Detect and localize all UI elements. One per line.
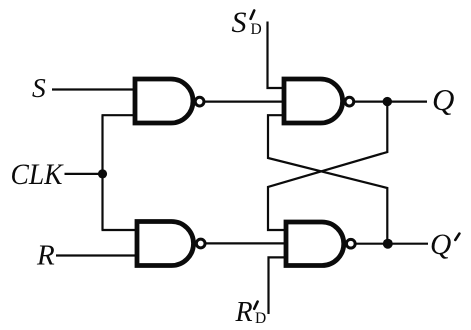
wire feedback U3 lower input to Q-prime — [268, 115, 387, 244]
svg-text:Q: Q — [432, 82, 454, 117]
node CLK junction — [98, 169, 107, 178]
svg-text:D: D — [255, 310, 266, 327]
wire CLK to gate U2 upper input — [102, 229, 140, 231]
wire U2 output to U4 input — [205, 242, 288, 244]
wire RD-prime vertical — [269, 257, 287, 314]
svg-text:S: S — [232, 6, 247, 39]
nand-gate U4 bubble — [346, 239, 355, 248]
svg-text:S: S — [32, 72, 46, 103]
nand-gate U3 bubble — [345, 97, 354, 106]
wire S input — [52, 88, 137, 90]
wire R input — [56, 254, 139, 256]
nand-gate U2 bubble — [196, 239, 205, 248]
svg-text:CLK: CLK — [11, 159, 64, 191]
wire U4 output to Q-prime — [355, 243, 428, 245]
wire U1 output to U3 input — [204, 100, 286, 102]
wire CLK vertical branch — [101, 115, 103, 230]
wire feedback Q to U4 upper input — [268, 102, 387, 230]
wire CLK to gate U1 lower input — [102, 114, 138, 116]
svg-text:D: D — [251, 21, 262, 38]
node Q junction — [383, 97, 392, 106]
nand-gate U4 body — [286, 222, 344, 266]
nand-gate U2 body — [137, 222, 194, 266]
nand-gate U1 body — [135, 79, 193, 123]
wire SD-prime vertical — [268, 22, 287, 89]
wire CLK input — [65, 173, 103, 175]
svg-text:R: R — [36, 239, 55, 271]
wire U3 output to Q — [354, 100, 427, 102]
node Q-prime junction — [383, 239, 393, 249]
svg-text:Q: Q — [430, 229, 451, 261]
nand-gate U1 bubble — [195, 97, 204, 106]
nand-gate U3 body — [284, 79, 343, 123]
svg-text:R: R — [235, 297, 253, 328]
